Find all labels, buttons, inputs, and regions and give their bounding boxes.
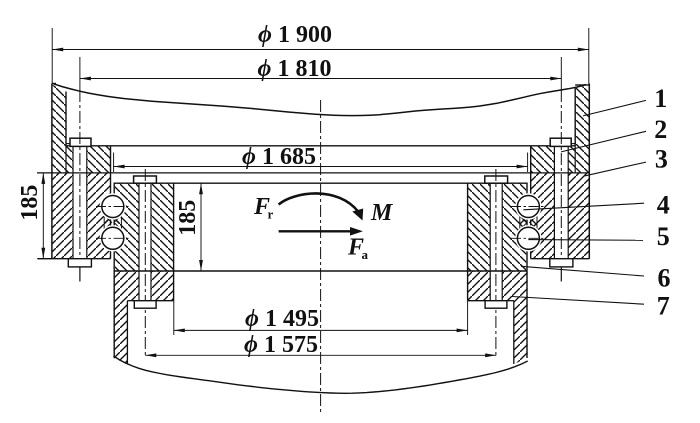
raceway land points between ball rows right [520, 215, 537, 230]
leader line for label 2 [561, 131, 646, 152]
part 7 left flange section hatch [127, 271, 173, 301]
bolt 2 right head [550, 138, 571, 146]
svg-text:7: 7 [657, 291, 670, 320]
inner ring left section hatch [115, 183, 174, 270]
part 7 right flange section hatch [468, 271, 514, 301]
part 1 upper support housing top curved surface [54, 84, 587, 116]
lower ball row 5 left [100, 225, 126, 251]
bolt 2 left tail [79, 267, 81, 282]
svg-text:185: 185 [17, 185, 43, 221]
bolt 2 right seat ledge [571, 143, 575, 145]
dimension 185 inner [175, 183, 203, 271]
moment M curved arrow [279, 193, 359, 212]
part 1 right wall section hatch [575, 85, 590, 173]
part 1 right wall right edge [588, 84, 590, 173]
part 7 right washer [485, 301, 507, 309]
lower ball row 5 right [515, 225, 541, 251]
leader line for label 6 [521, 266, 644, 276]
leader line for label 4 [523, 203, 644, 210]
inner ring left right edge [173, 183, 175, 301]
inner ring right right edge [526, 183, 528, 358]
upper outer ring right inner vertical joint [574, 146, 576, 173]
dimension phi1575 [145, 332, 496, 358]
outer ring lower left bottom edge [38, 258, 111, 260]
part 7 bottom curved shell surface [114, 356, 528, 393]
part 1 right wall left edge [574, 88, 576, 147]
part 7 right flange bottom edge [468, 300, 514, 302]
svg-text:Fa: Fa [347, 235, 369, 263]
part 7 right wall inner edge [513, 301, 515, 364]
part 1 left wall top edge [52, 83, 56, 85]
bolt 2 right tail [560, 267, 562, 282]
outer ring lower right section hatch [531, 173, 590, 259]
part 1 left wall left edge [51, 84, 53, 173]
leader line for label 5 [528, 239, 643, 242]
outer ring lower left right edge [110, 173, 112, 259]
upper outer ring left inner vertical joint [65, 146, 67, 173]
outer ring lower right left edge [530, 173, 532, 259]
seal plate upper line phi1685 level [114, 166, 528, 168]
part boundary line y173 [37, 172, 589, 174]
upper outer ring right section hatch [531, 146, 576, 173]
force Fa arrow [279, 230, 352, 232]
svg-text:ϕ 1 900: ϕ 1 900 [258, 22, 332, 48]
dimension phi1810 [80, 56, 561, 90]
inner ring right left edge [467, 183, 469, 301]
dimension phi1495 [174, 301, 468, 335]
raceway land points between ball rows left [104, 215, 121, 230]
outer ring lower right bottom edge [531, 258, 590, 260]
upper ball row 4 right [515, 193, 541, 219]
ball centerlines right [511, 207, 545, 239]
svg-text:ϕ 1 575: ϕ 1 575 [244, 332, 318, 358]
bolt 2 left head [70, 138, 91, 146]
upper outer ring right left edge [530, 146, 532, 173]
svg-text:2: 2 [654, 115, 667, 144]
upper outer ring left right edge [110, 146, 112, 173]
part 7 left outer wall section hatch [114, 271, 128, 364]
part 1 left wall right edge [65, 92, 67, 147]
bolt 2 left washer [68, 259, 91, 267]
leader line for label 3 [583, 162, 646, 176]
part 7 left washer [134, 301, 156, 309]
bolt 2 left centerline [79, 90, 81, 258]
part 7 left wall inner edge [126, 301, 128, 364]
outer ring lower left left edge [51, 173, 53, 259]
outer ring lower left section hatch [52, 173, 111, 259]
inner bolt right shaft edges [490, 183, 502, 301]
bolt 2 right shaft hole edges [554, 146, 568, 258]
part 7 right outer wall section hatch [514, 271, 528, 364]
svg-text:3: 3 [655, 145, 668, 174]
assembly vertical centerline [320, 100, 322, 412]
inner bolt left shaft edges [139, 183, 151, 301]
bolt 2 right centerline [560, 90, 562, 258]
part 7 left flange bottom edge [127, 300, 173, 302]
svg-text:ϕ 1 810: ϕ 1 810 [258, 56, 332, 82]
dimension phi1685 [114, 144, 528, 172]
dimension phi1900 [52, 22, 589, 84]
bolt 2 left seat ledge [66, 143, 70, 145]
inner ring bottom / part7 top line [114, 270, 527, 272]
svg-text:ϕ 1 495: ϕ 1 495 [245, 306, 319, 332]
part 1 left wall section hatch [52, 85, 67, 173]
svg-text:ϕ 1 685: ϕ 1 685 [242, 144, 316, 170]
svg-text:Fr: Fr [253, 194, 274, 222]
svg-text:1: 1 [654, 84, 667, 113]
leader line for label 7 [512, 297, 644, 305]
part 1 bottom flange line [66, 145, 575, 147]
upper outer ring left section hatch [66, 146, 111, 173]
svg-text:M: M [370, 200, 394, 226]
svg-text:5: 5 [657, 222, 670, 251]
inner bolt right centerline [495, 169, 497, 358]
dimension 185 left [17, 173, 52, 259]
svg-text:4: 4 [657, 190, 670, 219]
leader line for label 1 [583, 100, 646, 116]
outer ring lower right right edge [588, 173, 590, 259]
svg-text:6: 6 [658, 263, 671, 292]
part 1 right wall top edge [575, 84, 589, 86]
inner ring right section hatch [468, 183, 527, 270]
bolt 2 right washer [550, 259, 573, 267]
inner ring left left edge [113, 183, 115, 358]
inner bolt right head [485, 176, 508, 183]
bolt 2 left shaft hole edges [73, 146, 87, 258]
upper ball row 4 left [100, 193, 126, 219]
svg-text:185: 185 [175, 200, 201, 236]
ball centerlines left [96, 207, 130, 239]
inner bolt left centerline [144, 169, 146, 358]
inner bolt left head [134, 176, 157, 183]
inner ring top line [114, 182, 528, 184]
